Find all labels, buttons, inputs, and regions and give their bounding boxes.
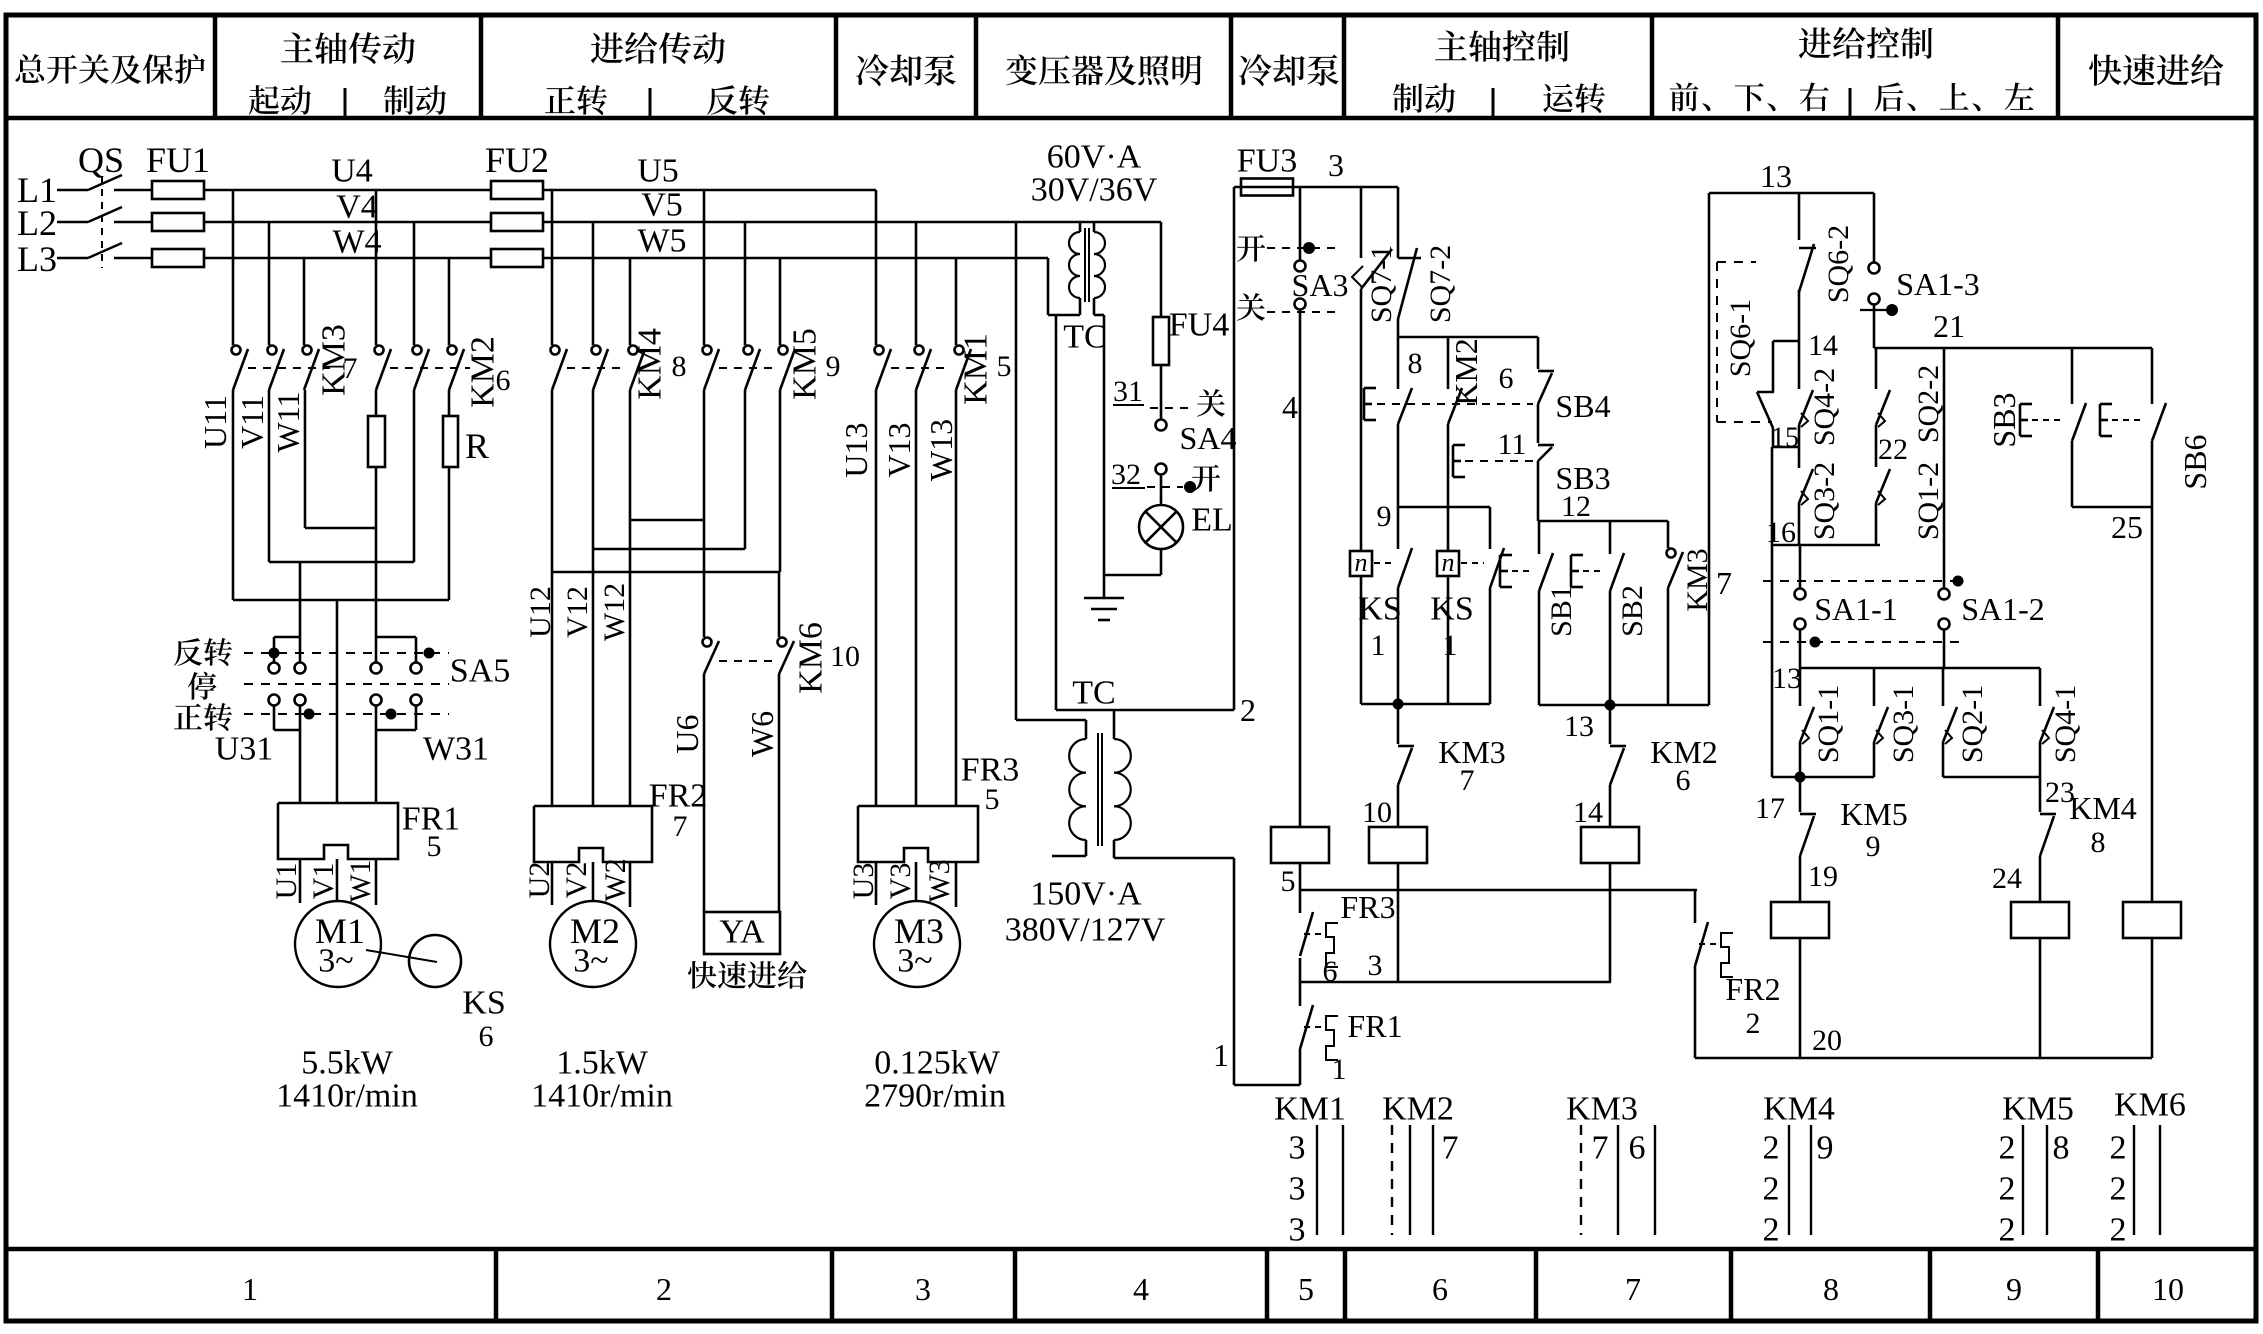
wire U2	[551, 862, 554, 905]
svg-text:KM4: KM4	[1763, 1091, 1835, 1128]
contactor KM2 main contacts	[375, 346, 384, 355]
svg-text:W11: W11	[270, 391, 306, 452]
svg-text:6: 6	[1629, 1130, 1646, 1167]
wire M3 feeds	[875, 390, 878, 806]
svg-text:3: 3	[1328, 147, 1344, 183]
svg-text:KM6: KM6	[2114, 1087, 2186, 1124]
svg-text:W2: W2	[599, 858, 632, 901]
resistor R left	[368, 416, 385, 467]
svg-text:13: 13	[1772, 662, 1802, 695]
wire KM4 W drop	[629, 258, 632, 345]
svg-text:7: 7	[1442, 1130, 1459, 1167]
svg-text:U3: U3	[847, 863, 880, 900]
wire YA leads	[703, 674, 706, 912]
svg-text:U12: U12	[524, 586, 557, 638]
wire U13 drop	[875, 190, 878, 345]
wire crossover U-W	[551, 390, 554, 806]
svg-text:KM4: KM4	[2069, 790, 2137, 826]
wire node 8	[1397, 319, 1400, 337]
contactor KM5 aux NC	[1799, 777, 1802, 812]
svg-text:V12: V12	[561, 586, 594, 638]
svg-text:15: 15	[1771, 423, 1799, 454]
wire node 25	[2072, 506, 2152, 509]
svg-text:n: n	[1442, 548, 1455, 577]
switch SA4	[1160, 365, 1163, 419]
svg-text:16: 16	[1766, 516, 1796, 549]
wire lamp ground	[1103, 315, 1106, 575]
speed relay KS rotor	[409, 935, 461, 987]
contactor KM6 contacts	[703, 638, 712, 647]
svg-text:17: 17	[1755, 792, 1785, 825]
svg-text:30V/36V: 30V/36V	[1031, 172, 1158, 209]
wire W13 drop	[955, 258, 958, 345]
wire KM5 W drop	[779, 258, 782, 345]
wire 7 interlock	[1708, 193, 1711, 705]
svg-text:3: 3	[915, 1271, 931, 1307]
wire L2 bus	[203, 221, 492, 224]
thermal contact FR1	[1299, 982, 1302, 1006]
svg-text:SQ3-1: SQ3-1	[1887, 685, 1920, 763]
svg-text:8: 8	[1408, 347, 1423, 380]
limit switch SQ3-2	[1799, 469, 1813, 503]
pushbutton SB2	[1609, 521, 1612, 554]
wire W31 drop	[375, 467, 378, 637]
switch SA1-1	[1799, 545, 1802, 588]
wire TC2 primary feed	[1015, 222, 1018, 720]
wire W2	[629, 862, 632, 907]
contactor coil KM5	[1799, 856, 1802, 903]
limit switch SQ1-1	[1799, 668, 1802, 706]
wire U3	[875, 862, 878, 905]
svg-text:SQ6-2: SQ6-2	[1822, 225, 1855, 303]
wire node 20 bus	[1695, 1057, 2152, 1060]
svg-text:2: 2	[2110, 1130, 2127, 1167]
wire KM4 V drop	[592, 222, 595, 345]
svg-text:V1: V1	[307, 863, 340, 900]
contactor KM2 aux contact	[1447, 337, 1450, 389]
contactor KM5 main contacts	[703, 346, 712, 355]
svg-text:L3: L3	[17, 239, 57, 279]
contactor KM3 main contacts	[232, 346, 241, 355]
svg-text:8: 8	[2053, 1130, 2070, 1167]
wire U31 drop	[299, 562, 302, 637]
svg-text:3: 3	[1289, 1212, 1306, 1249]
svg-text:W12: W12	[598, 583, 631, 641]
contactor coil KM3	[1397, 785, 1400, 828]
switch SA1-2	[1943, 348, 1946, 588]
wire W31	[375, 705, 378, 730]
svg-text:SA5: SA5	[450, 653, 510, 690]
svg-text:2: 2	[1763, 1212, 1780, 1249]
svg-text:13: 13	[1564, 710, 1594, 743]
motor M2	[550, 901, 636, 987]
wire V3	[915, 862, 918, 901]
svg-text:1410r/min: 1410r/min	[531, 1078, 673, 1115]
motor M3	[874, 901, 960, 987]
svg-text:W31: W31	[423, 731, 489, 768]
svg-text:KM1: KM1	[1274, 1091, 1346, 1128]
svg-text:5: 5	[1298, 1271, 1314, 1307]
wire TC1 step	[1055, 315, 1058, 710]
svg-text:6: 6	[1499, 362, 1514, 395]
electromagnet YA	[704, 912, 780, 954]
wire W3	[955, 862, 958, 907]
svg-text:1: 1	[1371, 629, 1386, 662]
svg-text:6: 6	[1676, 764, 1691, 797]
svg-text:3: 3	[1368, 949, 1383, 982]
svg-text:3~: 3~	[318, 943, 353, 980]
svg-text:4: 4	[1282, 389, 1298, 425]
wire U6 drop	[703, 390, 706, 637]
svg-text:7: 7	[673, 810, 688, 843]
contactor KM4 aux NC	[2039, 777, 2042, 812]
wire node 14	[1798, 290, 1801, 341]
svg-text:FR2: FR2	[649, 778, 708, 815]
svg-text:SB4: SB4	[1555, 388, 1610, 424]
svg-text:2: 2	[1999, 1130, 2016, 1167]
svg-text:KM1: KM1	[958, 333, 995, 405]
wire W1	[375, 859, 378, 905]
svg-text:W1: W1	[344, 859, 377, 902]
svg-text:22: 22	[1878, 433, 1908, 466]
svg-text:10: 10	[2152, 1271, 2184, 1307]
svg-text:U4: U4	[331, 153, 373, 190]
svg-text:SQ7-2: SQ7-2	[1424, 245, 1457, 323]
wire merge W11-R1	[304, 390, 307, 528]
speed relay KS contact 1	[1360, 289, 1363, 551]
svg-text:21: 21	[1933, 308, 1965, 344]
transformer TC1	[1079, 222, 1082, 232]
svg-text:KM3: KM3	[1566, 1091, 1638, 1128]
svg-text:5: 5	[985, 783, 1000, 816]
wire node 21	[1873, 304, 1876, 348]
svg-text:SA1-1: SA1-1	[1814, 591, 1898, 627]
wire node 16	[1771, 447, 1774, 777]
svg-text:7: 7	[343, 352, 358, 385]
svg-text:8: 8	[672, 350, 687, 383]
wire V11 drop	[268, 222, 271, 345]
svg-text:9: 9	[1866, 830, 1881, 863]
svg-text:380V/127V: 380V/127V	[1005, 912, 1166, 949]
svg-text:3: 3	[1289, 1130, 1306, 1167]
svg-text:KM5: KM5	[1840, 796, 1908, 832]
switch SA1-3	[1873, 193, 1876, 262]
svg-text:SQ2-2: SQ2-2	[1912, 365, 1945, 443]
wire V13 drop	[915, 222, 918, 345]
svg-text:SQ2-1: SQ2-1	[1956, 685, 1989, 763]
svg-text:14: 14	[1573, 796, 1603, 829]
svg-text:5: 5	[427, 830, 442, 863]
svg-text:W3: W3	[923, 859, 956, 902]
svg-text:7: 7	[1592, 1130, 1609, 1167]
wire node 17	[1799, 742, 1802, 777]
ground	[1103, 574, 1106, 598]
contactor coil KM6	[2151, 507, 2154, 903]
svg-text:3~: 3~	[573, 943, 608, 980]
wire L3 bus	[203, 257, 492, 260]
wire U5 bus	[543, 189, 876, 192]
svg-text:U13: U13	[838, 422, 874, 477]
svg-text:4: 4	[1133, 1271, 1149, 1307]
wire W11 drop	[303, 258, 306, 345]
svg-text:1410r/min: 1410r/min	[276, 1078, 418, 1115]
wire crossover V-V	[592, 390, 595, 806]
svg-text:YA: YA	[719, 914, 765, 951]
svg-text:13: 13	[1760, 158, 1792, 194]
svg-text:2: 2	[2110, 1212, 2127, 1249]
svg-text:V13: V13	[881, 422, 917, 477]
svg-text:SB3: SB3	[1986, 392, 2022, 447]
svg-text:W6: W6	[744, 711, 780, 757]
svg-text:2: 2	[1240, 692, 1256, 728]
svg-text:SQ6-1: SQ6-1	[1724, 299, 1757, 377]
svg-text:3: 3	[1289, 1171, 1306, 1208]
svg-text:0.125kW: 0.125kW	[874, 1045, 1001, 1082]
limit switch SQ4-1	[2039, 668, 2042, 706]
svg-text:31: 31	[1113, 375, 1143, 408]
limit switch SQ3-1	[1873, 668, 1876, 706]
thermal contact FR2	[1694, 890, 1697, 923]
svg-text:FR2: FR2	[1725, 971, 1780, 1007]
svg-text:2: 2	[656, 1271, 672, 1307]
svg-text:V4: V4	[336, 189, 378, 226]
switch SA5 reversing drum	[274, 636, 300, 639]
svg-text:10: 10	[830, 640, 860, 673]
svg-text:FR3: FR3	[1340, 889, 1395, 925]
wire KM2 branch V drop	[413, 222, 416, 345]
thermal relay FR3 heaters	[858, 806, 978, 862]
svg-text:R: R	[465, 426, 489, 466]
wire node 12	[1537, 461, 1540, 521]
svg-text:1: 1	[1213, 1037, 1229, 1073]
svg-text:5: 5	[997, 350, 1012, 383]
svg-text:150V·A: 150V·A	[1030, 876, 1142, 913]
fuse FU3	[1234, 186, 1398, 189]
pushbutton SB4 NC	[1537, 337, 1540, 369]
svg-text:KS: KS	[462, 985, 505, 1022]
wire node KM3 coil feed	[1361, 703, 1490, 706]
svg-text:SQ4-2: SQ4-2	[1808, 368, 1841, 446]
wire V5 bus	[543, 221, 1161, 224]
svg-text:SQ3-2: SQ3-2	[1808, 462, 1841, 540]
svg-text:9: 9	[2006, 1271, 2022, 1307]
svg-text:L2: L2	[17, 203, 57, 243]
limit switch SQ2-2	[1875, 348, 1878, 389]
svg-text:10: 10	[1362, 796, 1392, 829]
svg-text:14: 14	[1808, 329, 1838, 362]
wire node 13 top	[1709, 192, 1874, 195]
wire U31	[273, 705, 276, 730]
svg-text:SQ1-1: SQ1-1	[1812, 685, 1845, 763]
svg-text:KM4: KM4	[632, 328, 669, 400]
header column titles	[15, 54, 205, 84]
svg-text:EL: EL	[1191, 502, 1233, 539]
svg-text:SB2: SB2	[1616, 585, 1649, 637]
svg-text:20: 20	[1812, 1024, 1842, 1057]
svg-text:FR1: FR1	[1347, 1008, 1402, 1044]
svg-text:19: 19	[1808, 860, 1838, 893]
wire node 13 bus feed	[1799, 630, 1802, 668]
switch SA3	[1299, 187, 1302, 260]
svg-text:FU2: FU2	[485, 140, 549, 180]
lamp EL	[1160, 475, 1163, 505]
contactor KM3 aux NC	[1397, 704, 1400, 744]
svg-text:KM5: KM5	[2002, 1091, 2074, 1128]
svg-text:12: 12	[1561, 490, 1591, 523]
svg-text:FU4: FU4	[1169, 307, 1229, 344]
wire node 13 bus	[1539, 704, 1709, 707]
svg-text:2: 2	[1763, 1171, 1780, 1208]
svg-text:SQ4-1: SQ4-1	[2049, 685, 2082, 763]
svg-text:SB6: SB6	[2177, 434, 2213, 489]
svg-text:KM2: KM2	[1448, 338, 1484, 406]
node 2 wire	[1056, 709, 1234, 712]
thermal relay FR1 heaters	[278, 803, 398, 859]
wire node 9	[1397, 424, 1400, 507]
pushbutton SB4	[1363, 388, 1366, 420]
svg-text:SA1-2: SA1-2	[1961, 591, 2045, 627]
pushbutton SB3 operator	[1452, 445, 1455, 477]
svg-text:7: 7	[1625, 1271, 1641, 1307]
svg-text:SQ1-2: SQ1-2	[1912, 462, 1945, 540]
svg-text:2: 2	[2110, 1171, 2127, 1208]
svg-text:TC: TC	[1072, 675, 1115, 712]
transformer TC2	[1085, 720, 1088, 739]
wire KM2 branch W drop	[448, 258, 451, 345]
wire KM4 U drop	[551, 190, 554, 345]
wire L1 bus	[203, 189, 492, 192]
svg-text:2: 2	[1746, 1007, 1761, 1040]
contactor coil KM1	[1271, 827, 1329, 863]
svg-text:60V·A: 60V·A	[1047, 139, 1142, 176]
pushbutton SB6	[2151, 348, 2154, 404]
speed relay KS contact 2	[1447, 424, 1450, 551]
limit switch SQ6-1 linked box	[1716, 262, 1718, 422]
wire cooling control	[1299, 310, 1302, 828]
svg-text:U31: U31	[215, 731, 274, 768]
svg-text:KS: KS	[1358, 591, 1401, 628]
svg-text:9: 9	[1377, 500, 1392, 533]
wire U1	[299, 859, 302, 903]
contactor KM4 main contacts	[551, 346, 560, 355]
wire W5 bus	[543, 257, 1048, 260]
svg-text:3~: 3~	[897, 943, 932, 980]
limit switch SQ7-1	[1360, 187, 1363, 258]
pushbutton SB1	[1538, 521, 1541, 554]
wire merge V11-V	[268, 390, 271, 562]
limit switch SQ6-1 contact	[1772, 341, 1775, 392]
svg-text:KM6: KM6	[793, 622, 830, 694]
limit switch SQ2-1	[1942, 668, 1945, 706]
motor M1	[295, 901, 381, 987]
node 1 wire	[1114, 857, 1234, 860]
svg-text:2: 2	[1999, 1212, 2016, 1249]
wire KM2 branch U drop	[375, 190, 378, 345]
svg-text:1: 1	[1443, 629, 1458, 662]
svg-text:2: 2	[1999, 1171, 2016, 1208]
svg-text:7: 7	[1460, 764, 1475, 797]
svg-text:8: 8	[1823, 1271, 1839, 1307]
svg-text:SA1-3: SA1-3	[1896, 266, 1980, 302]
svg-text:5.5kW: 5.5kW	[301, 1045, 394, 1082]
limit switch SQ1-2	[1875, 425, 1878, 467]
limit switch SQ6-2	[1798, 193, 1801, 240]
svg-text:8: 8	[2091, 826, 2106, 859]
svg-text:6: 6	[496, 364, 511, 397]
svg-text:2790r/min: 2790r/min	[864, 1078, 1006, 1115]
limit switch SQ7-2	[1397, 187, 1400, 258]
svg-text:TC: TC	[1063, 319, 1106, 356]
svg-text:24: 24	[1992, 862, 2022, 895]
limit switch SQ4-2	[1798, 341, 1801, 389]
svg-text:6: 6	[479, 1020, 494, 1053]
svg-text:U11: U11	[197, 395, 233, 449]
wire V31 drop	[336, 600, 339, 803]
svg-text:W13: W13	[923, 419, 959, 481]
svg-text:W5: W5	[637, 223, 686, 260]
svg-text:U2: U2	[523, 862, 556, 899]
wire V1	[336, 859, 339, 901]
svg-text:SA4: SA4	[1180, 420, 1237, 456]
wire merge U11-R2	[232, 390, 235, 600]
thermal contact FR3	[1299, 890, 1302, 913]
svg-text:5: 5	[1281, 865, 1296, 898]
svg-text:U1: U1	[270, 863, 303, 900]
pushbutton SB3 feed	[2071, 348, 2074, 404]
wire node 15	[1772, 428, 1775, 447]
svg-text:1: 1	[1332, 1053, 1347, 1086]
bus wire 3	[1299, 958, 1302, 982]
svg-text:U5: U5	[637, 153, 679, 190]
svg-text:n: n	[1355, 548, 1368, 577]
svg-text:KM2: KM2	[1382, 1091, 1454, 1128]
svg-text:7: 7	[1716, 565, 1732, 601]
svg-text:V5: V5	[641, 187, 683, 224]
svg-text:11: 11	[1498, 428, 1527, 461]
svg-text:32: 32	[1111, 458, 1141, 491]
svg-text:V3: V3	[884, 863, 917, 900]
svg-text:V2: V2	[560, 862, 593, 899]
contactor coil KM4	[2039, 856, 2042, 903]
contactor KM1 main contacts	[875, 346, 884, 355]
svg-text:KM5: KM5	[787, 328, 824, 400]
svg-text:1: 1	[242, 1271, 258, 1307]
svg-text:FU3: FU3	[1237, 143, 1297, 180]
wire KM5 V drop	[744, 222, 747, 345]
svg-text:1.5kW: 1.5kW	[556, 1045, 649, 1082]
svg-text:V11: V11	[234, 395, 270, 449]
svg-text:SB1: SB1	[1545, 585, 1578, 637]
svg-text:2: 2	[1763, 1130, 1780, 1167]
svg-text:9: 9	[826, 350, 841, 383]
svg-text:FU1: FU1	[146, 140, 210, 180]
wire W6 drop	[778, 572, 781, 637]
svg-text:KS: KS	[1430, 591, 1473, 628]
fuse FU4	[1160, 222, 1163, 317]
thermal relay FR2 heaters	[534, 806, 652, 862]
svg-text:U6: U6	[669, 714, 705, 753]
resistor R right	[443, 416, 458, 467]
wire KM5 U drop	[703, 190, 706, 345]
svg-text:QS: QS	[78, 140, 124, 180]
bus wire 5	[1300, 889, 1697, 892]
contactor KM3 aux NO	[1667, 521, 1670, 548]
wire node 23	[1942, 742, 1945, 777]
wire V2	[592, 862, 595, 901]
svg-text:25: 25	[2111, 509, 2143, 545]
wire crossover W-U	[629, 390, 632, 806]
svg-text:SQ7-1: SQ7-1	[1365, 245, 1398, 323]
